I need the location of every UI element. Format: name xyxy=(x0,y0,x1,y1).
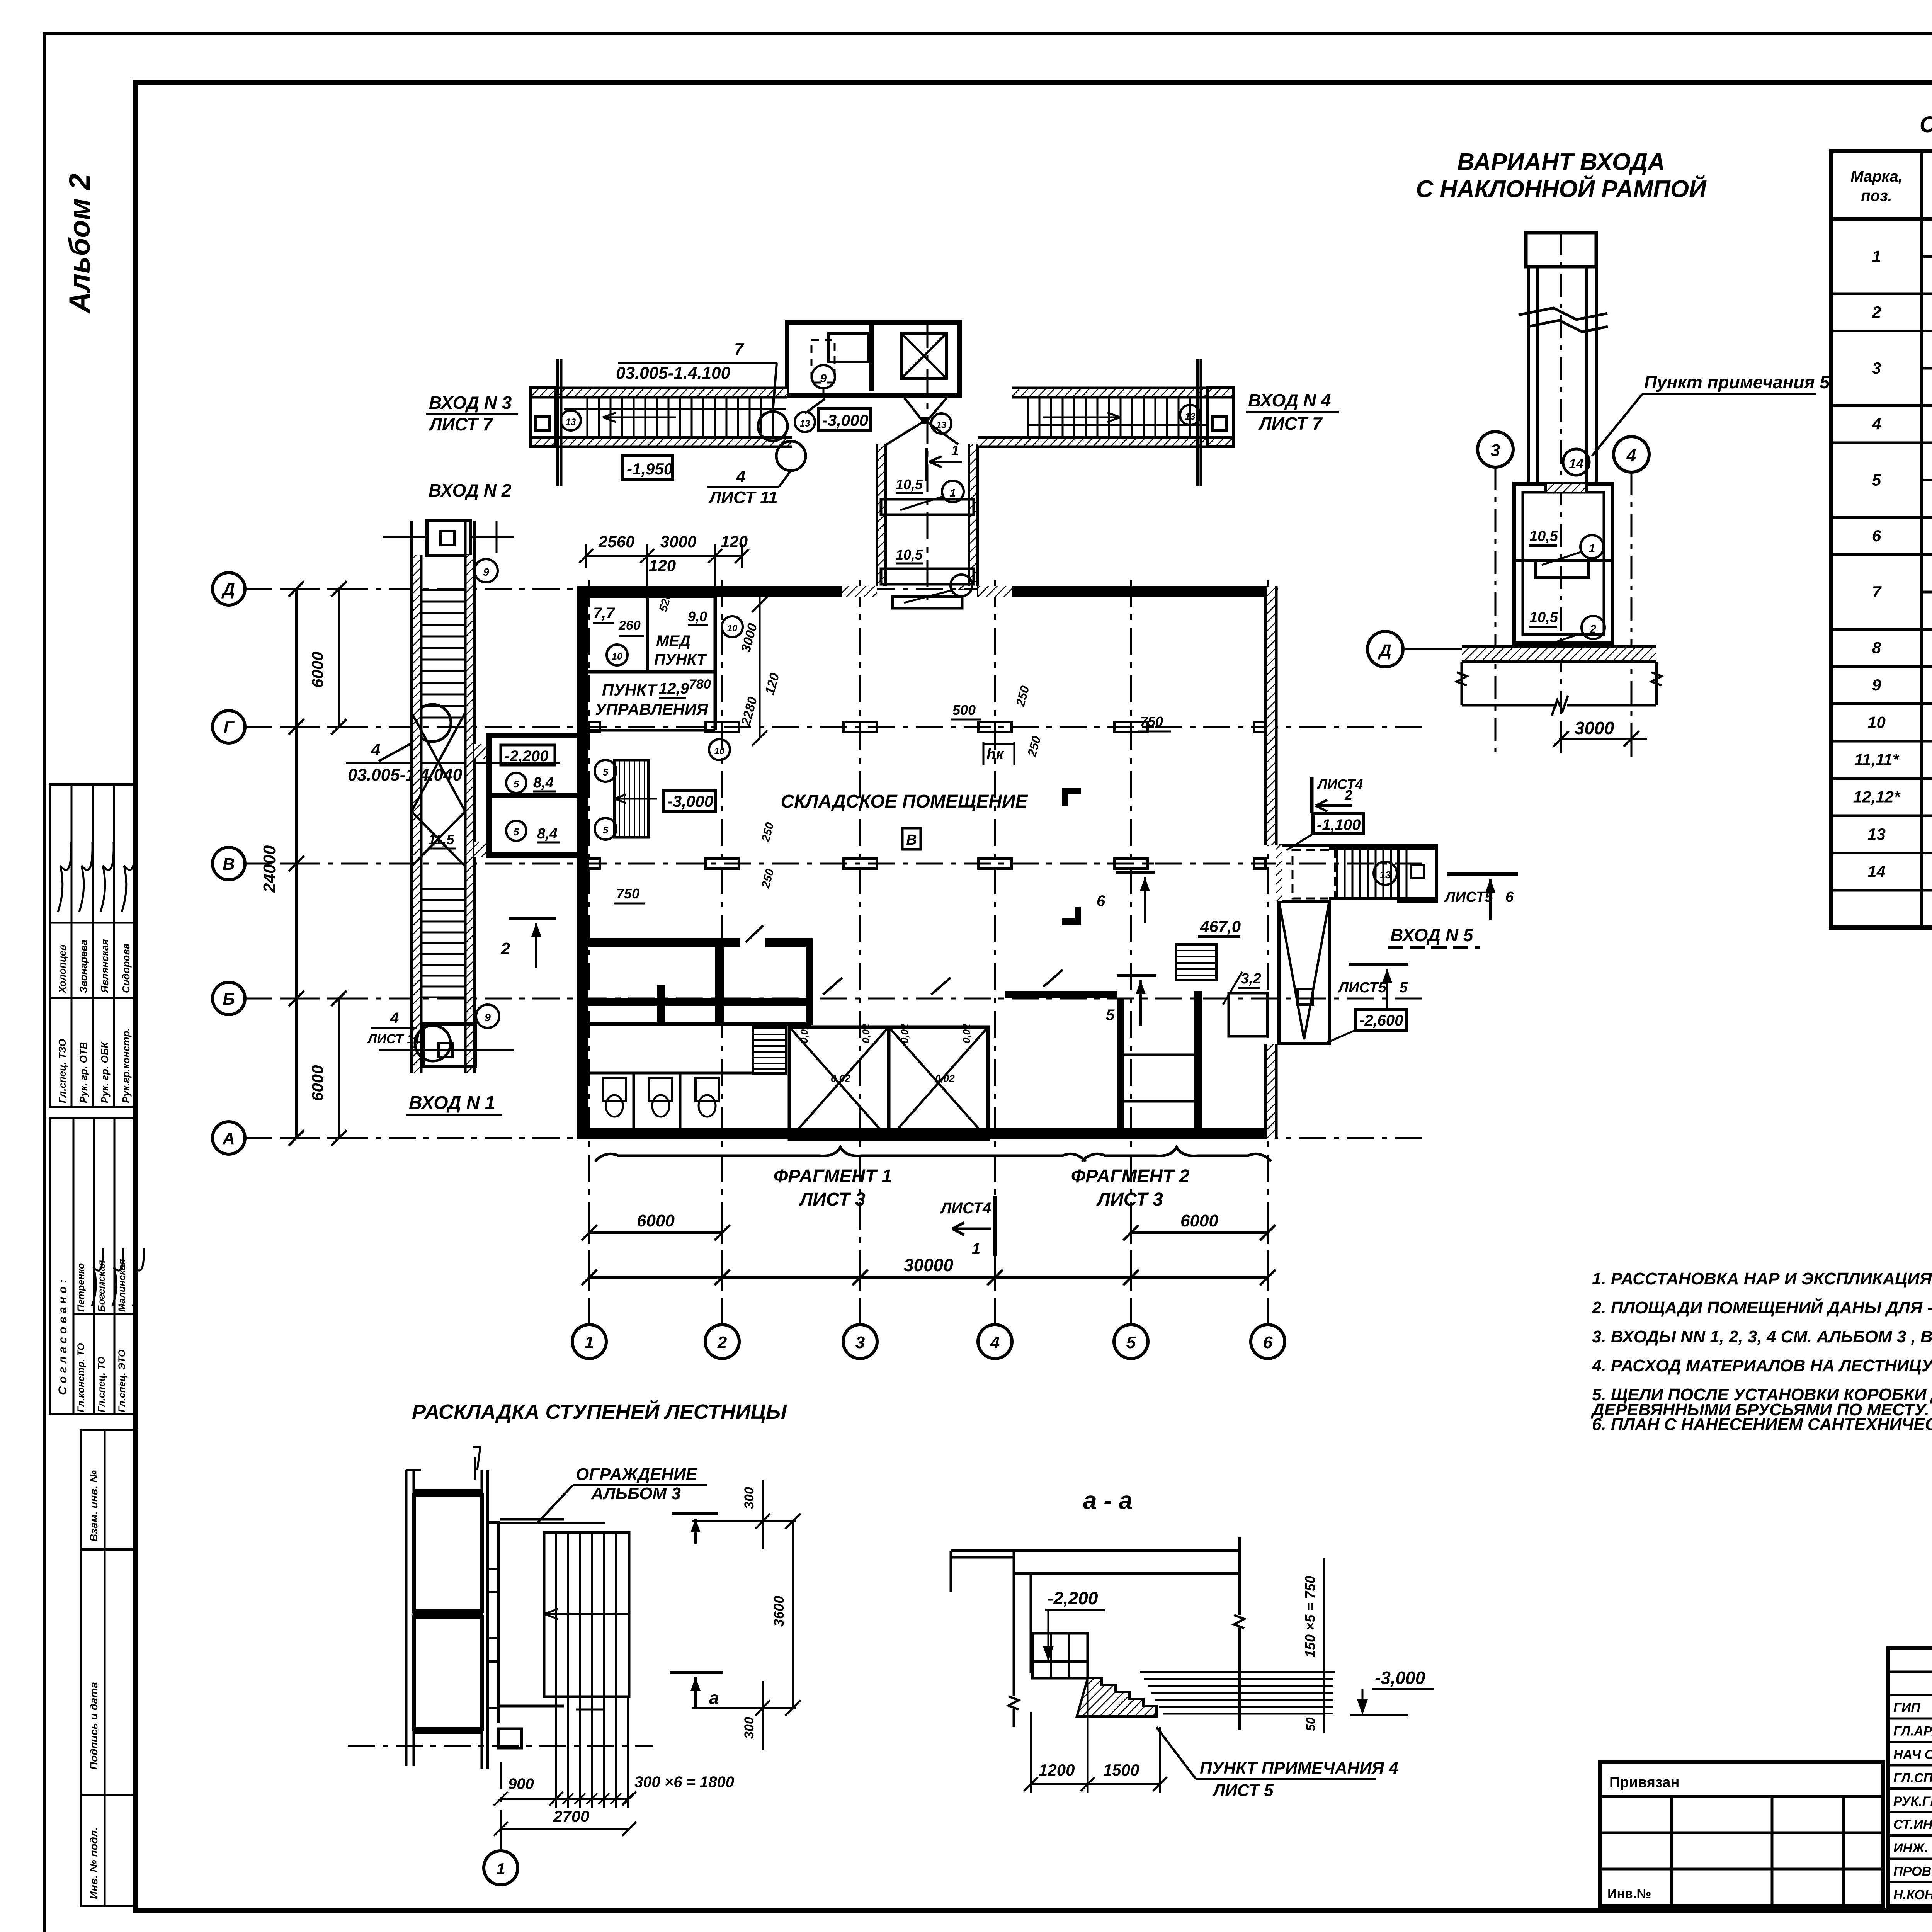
svg-text:В: В xyxy=(223,855,235,874)
svg-text:13: 13 xyxy=(800,418,810,429)
svg-text:0,02: 0,02 xyxy=(798,1024,810,1043)
svg-text:10,5: 10,5 xyxy=(896,547,923,563)
right ramp outer walls xyxy=(1012,388,1233,397)
svg-text:5: 5 xyxy=(1400,980,1408,996)
svg-text:2: 2 xyxy=(958,581,964,593)
svg-text:hк: hк xyxy=(986,746,1004,763)
svg-text:2: 2 xyxy=(500,939,510,958)
svg-text:300: 300 xyxy=(742,1487,757,1509)
svg-text:ЛИСТ 7: ЛИСТ 7 xyxy=(429,414,493,434)
svg-text:1. РАССТАНОВКА НАР И ЭКСПЛ: 1. РАССТАНОВКА НАР И ЭКСПЛИКАЦИЯ ПОМЕЩЕН… xyxy=(1592,1269,1932,1288)
dim right 300 top xyxy=(762,1480,764,1549)
svg-text:6000: 6000 xyxy=(637,1211,675,1230)
svg-text:СПЕЦИФИКАЦИЯ ЭЛЕМЕНТОВ З: СПЕЦИФИКАЦИЯ ЭЛЕМЕНТОВ ЗАПОЛНЕНИЯ ПРОЕМО… xyxy=(1920,112,1932,137)
svg-text:750: 750 xyxy=(1140,714,1163,730)
landing grid xyxy=(1032,1662,1088,1678)
svg-text:0,02: 0,02 xyxy=(860,1024,872,1043)
svg-text:Богемская: Богемская xyxy=(96,1260,107,1312)
circled 9 top xyxy=(812,365,835,388)
axis 2 line xyxy=(721,580,723,1325)
stair strip top box xyxy=(427,521,471,555)
svg-text:24000: 24000 xyxy=(260,845,279,893)
raskladka left wall xyxy=(405,1470,408,1766)
building left wall xyxy=(577,586,588,1139)
dim 2700 xyxy=(501,1828,629,1830)
svg-text:-1,950: -1,950 xyxy=(627,460,673,478)
svg-text:Д: Д xyxy=(1378,641,1391,660)
svg-text:Гл.спец. ТО: Гл.спец. ТО xyxy=(96,1356,107,1412)
svg-text:-3,000: -3,000 xyxy=(822,411,868,429)
bottom rooms top wall xyxy=(588,938,740,947)
corridor door 1 xyxy=(881,499,974,515)
ramp mid arrows right xyxy=(1043,417,1121,418)
svg-text:10: 10 xyxy=(612,651,622,662)
svg-text:СТ.ИНЖ.: СТ.ИНЖ. xyxy=(1893,1818,1932,1832)
axis Г circle xyxy=(213,711,245,743)
svg-text:Являнская: Являнская xyxy=(99,939,111,993)
building top wall xyxy=(577,586,877,597)
svg-text:5: 5 xyxy=(1106,1007,1115,1024)
svg-text:7: 7 xyxy=(1872,583,1882,601)
svg-text:-3,000: -3,000 xyxy=(1375,1668,1425,1688)
svg-text:10,5: 10,5 xyxy=(1529,609,1558,626)
junction floor diagonals xyxy=(905,398,922,420)
svg-text:2: 2 xyxy=(1590,623,1597,636)
svg-text:120: 120 xyxy=(721,532,748,551)
ramp mid rail right xyxy=(1028,424,1206,426)
bottom dims 6000 xyxy=(589,1231,722,1234)
vhod5 stair annex xyxy=(1279,844,1436,847)
stair treads upper xyxy=(421,589,465,591)
svg-text:РУК.ГР.: РУК.ГР. xyxy=(1893,1794,1932,1809)
circled 5 + 8,4 upper xyxy=(506,773,526,793)
fragment braces xyxy=(595,1147,1086,1161)
svg-text:ЛИСТ 11: ЛИСТ 11 xyxy=(708,488,778,507)
svg-text:50: 50 xyxy=(1304,1717,1318,1731)
svg-text:4: 4 xyxy=(371,740,380,759)
circled 2 xyxy=(1582,616,1605,639)
dim 3000 section xyxy=(1559,738,1647,740)
svg-text:ВХОД N 4: ВХОД N 4 xyxy=(1248,390,1331,410)
annex connectors xyxy=(474,744,489,759)
-1,100 label xyxy=(1313,814,1363,834)
svg-text:10: 10 xyxy=(714,746,725,757)
title block small left table (Privyazan) xyxy=(1600,1762,1883,1906)
left dim 24000 xyxy=(295,589,298,1138)
svg-text:11,5: 11,5 xyxy=(428,832,454,847)
svg-text:5: 5 xyxy=(1126,1333,1136,1352)
svg-text:-2,200: -2,200 xyxy=(505,748,548,765)
axis line + circle 1 xyxy=(348,1745,653,1747)
svg-text:9: 9 xyxy=(483,566,489,578)
svg-text:9: 9 xyxy=(820,372,827,385)
svg-text:1: 1 xyxy=(496,1860,505,1878)
lift shaft with X xyxy=(901,333,946,378)
vestibule top hatch xyxy=(1546,484,1587,492)
top rail mark xyxy=(383,536,427,538)
stair treads lower xyxy=(421,888,465,890)
svg-text:поз.: поз. xyxy=(1861,187,1892,204)
svg-text:1: 1 xyxy=(585,1333,594,1352)
vestibule middle landing xyxy=(1536,560,1589,577)
axis Д circle xyxy=(213,573,245,605)
-1,950 box xyxy=(622,456,673,479)
svg-text:8,4: 8,4 xyxy=(533,775,554,791)
bottom rail mark xyxy=(379,1049,514,1051)
room 7,7 xyxy=(587,597,647,672)
svg-text:ЛИСТ5: ЛИСТ5 xyxy=(1444,889,1493,905)
svg-text:5: 5 xyxy=(514,826,519,838)
svg-text:Пункт примечания 5: Пункт примечания 5 xyxy=(1644,372,1830,392)
bottom dim 30000 xyxy=(589,1276,1268,1279)
bottom dims 1200/1500 xyxy=(1030,1712,1032,1793)
axis 4 circle xyxy=(978,1325,1012,1359)
right ramp end box xyxy=(1208,388,1233,447)
svg-text:9,0: 9,0 xyxy=(688,609,707,624)
right stairwell funnel xyxy=(1279,901,1329,1044)
svg-text:2: 2 xyxy=(1872,303,1881,321)
callout circle bottom xyxy=(415,1026,451,1061)
svg-text:9: 9 xyxy=(485,1012,491,1024)
svg-text:10,5: 10,5 xyxy=(896,476,923,492)
axis 3 line xyxy=(859,580,861,1325)
svg-text:467,0: 467,0 xyxy=(1200,917,1241,935)
svg-text:ЛИСТ 3: ЛИСТ 3 xyxy=(1096,1189,1163,1210)
section shaft cap xyxy=(1526,233,1596,267)
svg-text:11,11*: 11,11* xyxy=(1854,750,1900,769)
axis В circle xyxy=(213,847,245,880)
svg-text:МЕД: МЕД xyxy=(656,633,690,650)
callout circles junction xyxy=(758,412,787,441)
svg-text:13: 13 xyxy=(1867,825,1886,843)
left ramp treads xyxy=(587,397,588,437)
svg-text:2700: 2700 xyxy=(553,1807,589,1825)
annex rooms box xyxy=(489,735,584,855)
svg-text:Гл.констр. ТО: Гл.констр. ТО xyxy=(76,1343,87,1412)
svg-text:13: 13 xyxy=(1185,412,1196,422)
svg-text:ВХОД N 3: ВХОД N 3 xyxy=(429,393,512,413)
svg-text:ЛИСТ 11: ЛИСТ 11 xyxy=(367,1032,421,1046)
B box xyxy=(902,828,921,849)
svg-text:300 ×6 = 1800: 300 ×6 = 1800 xyxy=(634,1774,734,1791)
circled 13 b,c,d xyxy=(795,412,815,432)
top rooms block xyxy=(787,322,959,395)
svg-text:Петренко: Петренко xyxy=(76,1263,87,1312)
section mark a top xyxy=(670,1671,723,1674)
punkt upravleniya room xyxy=(587,670,715,674)
stair plan rect xyxy=(544,1532,629,1697)
svg-text:6: 6 xyxy=(1263,1333,1273,1352)
svg-text:ИНЖ.: ИНЖ. xyxy=(1893,1841,1928,1855)
svg-text:1: 1 xyxy=(1589,542,1595,555)
axis Б circle xyxy=(213,982,245,1015)
svg-text:Марка,: Марка, xyxy=(1850,168,1903,185)
axis circle 3 xyxy=(1478,432,1513,467)
axis Б line xyxy=(245,998,1430,1000)
dashed equipment rect xyxy=(828,333,868,362)
svg-text:-2,200: -2,200 xyxy=(1048,1588,1098,1608)
stair strip walls xyxy=(412,555,421,1073)
svg-text:С о г л а с о в а н о :: С о г л а с о в а н о : xyxy=(56,1279,69,1395)
mid landing diagonals xyxy=(412,713,465,811)
circled 1 xyxy=(1580,535,1604,558)
svg-text:С НАКЛОННОЙ РАМПОЙ: С НАКЛОННОЙ РАМПОЙ xyxy=(1416,175,1707,202)
svg-text:ОГРАЖДЕНИЕ: ОГРАЖДЕНИЕ xyxy=(576,1465,698,1484)
svg-text:РАСКЛАДКА СТУПЕНЕЙ ЛЕСТН: РАСКЛАДКА СТУПЕНЕЙ ЛЕСТНИЦЫ xyxy=(412,1400,787,1423)
circled 10 c xyxy=(709,739,730,760)
left ramp outer walls xyxy=(530,388,787,397)
axis 1 circle xyxy=(572,1325,606,1359)
svg-text:ЛИСТ4: ЛИСТ4 xyxy=(940,1200,991,1217)
svg-text:Д: Д xyxy=(221,580,235,599)
door swings xyxy=(823,978,842,995)
svg-text:ЛИСТ4: ЛИСТ4 xyxy=(1316,776,1363,792)
ramp mid arrows left xyxy=(603,417,676,418)
svg-text:ПУНКТ ПРИМЕЧАНИЯ 4: ПУНКТ ПРИМЕЧАНИЯ 4 xyxy=(1200,1759,1398,1777)
svg-text:120: 120 xyxy=(649,556,676,575)
toilets row bottom-left xyxy=(588,1072,753,1075)
svg-text:6000: 6000 xyxy=(1180,1211,1218,1230)
svg-text:12,12*: 12,12* xyxy=(1853,788,1901,806)
svg-text:0,02: 0,02 xyxy=(899,1024,910,1043)
door arcs top wall xyxy=(746,925,763,942)
svg-text:150 ×5 = 750: 150 ×5 = 750 xyxy=(1302,1576,1318,1658)
svg-text:12,9: 12,9 xyxy=(659,680,689,697)
svg-text:3000: 3000 xyxy=(1575,718,1614,738)
svg-text:Б: Б xyxy=(223,990,235,1009)
steps and concrete mass xyxy=(1077,1678,1156,1716)
svg-text:3. ВХОДЫ NN 1, 2, 3, 4 СМ.: 3. ВХОДЫ NN 1, 2, 3, 4 СМ. АЛЬБОМ 3 , ВХ… xyxy=(1592,1327,1932,1346)
vhod5 end box xyxy=(1399,845,1436,901)
svg-text:6: 6 xyxy=(1505,889,1514,905)
svg-text:2: 2 xyxy=(1344,787,1352,803)
stair right of annex xyxy=(614,760,648,837)
columns xyxy=(706,722,739,732)
svg-text:6000: 6000 xyxy=(308,1065,327,1101)
svg-text:900: 900 xyxy=(508,1776,534,1793)
svg-text:4: 4 xyxy=(736,467,745,486)
svg-text:0,02: 0,02 xyxy=(935,1073,955,1084)
svg-text:Привязан: Привязан xyxy=(1609,1774,1679,1791)
svg-text:0,02: 0,02 xyxy=(961,1024,972,1043)
svg-text:4. РАСХОД МАТЕРИАЛОВ НА ЛЕСТ: 4. РАСХОД МАТЕРИАЛОВ НА ЛЕСТНИЦУ ВНЕСЕН … xyxy=(1592,1356,1932,1375)
svg-text:ЛИСТ5: ЛИСТ5 xyxy=(1337,980,1387,996)
svg-text:500: 500 xyxy=(952,702,976,718)
svg-text:300: 300 xyxy=(742,1717,757,1739)
list5-6 marker xyxy=(1447,872,1518,876)
svg-text:ПРОВЕР.: ПРОВЕР. xyxy=(1893,1864,1932,1879)
section arrow 2 xyxy=(509,917,556,920)
dim 3600 xyxy=(792,1521,794,1708)
svg-text:1: 1 xyxy=(972,1240,980,1257)
svg-text:Сидорова: Сидорова xyxy=(120,944,132,993)
svg-text:ГЛ.АРХ.: ГЛ.АРХ. xyxy=(1893,1724,1932,1739)
svg-text:10: 10 xyxy=(1867,713,1886,731)
svg-text:ФРАГМЕНТ 1: ФРАГМЕНТ 1 xyxy=(774,1166,892,1187)
svg-text:750: 750 xyxy=(616,886,639,901)
raskladka horizontals xyxy=(414,1489,482,1495)
axis 5 line xyxy=(1130,580,1132,1325)
svg-text:6: 6 xyxy=(1097,893,1105,910)
svg-text:260: 260 xyxy=(618,618,641,633)
axis circle D section xyxy=(1367,631,1403,667)
section shaft walls xyxy=(1527,267,1530,484)
svg-text:14: 14 xyxy=(1569,457,1583,471)
left ramp wall mark xyxy=(556,359,559,486)
svg-text:Малинская: Малинская xyxy=(117,1259,128,1312)
svg-text:Инв.№: Инв.№ xyxy=(1607,1886,1651,1901)
section vestibule walls xyxy=(1514,484,1612,643)
svg-text:780: 780 xyxy=(689,677,711,692)
svg-text:УПРАВЛЕНИЯ: УПРАВЛЕНИЯ xyxy=(595,700,709,718)
circled 9 lower xyxy=(476,1005,499,1028)
bottom entry hatch strip xyxy=(842,586,877,597)
slab sides box with breaks xyxy=(1461,662,1463,705)
ramp lines xyxy=(1140,1671,1325,1673)
right rooms partitions xyxy=(1117,998,1124,1139)
svg-text:6000: 6000 xyxy=(308,652,327,688)
svg-text:1: 1 xyxy=(951,442,959,458)
svg-text:4: 4 xyxy=(990,1333,1000,1352)
svg-text:НАЧ ОТД.: НАЧ ОТД. xyxy=(1893,1747,1932,1762)
dim right 300 bottom xyxy=(762,1681,764,1750)
svg-text:ПУНКТ: ПУНКТ xyxy=(602,681,658,699)
svg-text:Рук. гр. ОБК: Рук. гр. ОБК xyxy=(99,1041,111,1103)
axis 3 circle xyxy=(843,1325,877,1359)
svg-text:2. ПЛОЩАДИ ПОМЕЩЕНИЙ ДАН: 2. ПЛОЩАДИ ПОМЕЩЕНИЙ ДАНЫ ДЛЯ -А- II - 1… xyxy=(1592,1298,1932,1317)
svg-text:2560: 2560 xyxy=(598,532,634,551)
circled 10 a,b xyxy=(607,645,628,665)
-3,000 box plan xyxy=(663,791,715,811)
svg-text:10: 10 xyxy=(727,623,738,634)
vhod5 treads xyxy=(1336,849,1338,898)
section arrow 6 mid xyxy=(1116,871,1155,874)
svg-text:Рук.гр.констр.: Рук.гр.констр. xyxy=(120,1028,132,1103)
building bottom wall xyxy=(577,1128,1276,1139)
central stairwell X boxes xyxy=(789,1027,889,1139)
circled 13 vhod5 xyxy=(1374,862,1397,885)
svg-text:1: 1 xyxy=(950,487,956,499)
dims above building 2560/3000/120 xyxy=(586,555,742,557)
svg-text:13: 13 xyxy=(936,420,947,430)
list4-2 marker right xyxy=(1310,777,1314,813)
left dim 6000s xyxy=(338,589,340,727)
svg-text:4: 4 xyxy=(1626,446,1636,465)
axis А line xyxy=(245,1137,1430,1139)
svg-text:3000: 3000 xyxy=(660,532,696,551)
section shaft break xyxy=(1519,308,1607,320)
axis В line xyxy=(245,863,1430,865)
axis 6 circle xyxy=(1251,1325,1285,1359)
circled 14 xyxy=(1563,449,1589,475)
axis circle 4 xyxy=(1614,437,1649,472)
axis 1 line xyxy=(588,580,590,1325)
svg-text:3,2: 3,2 xyxy=(1241,971,1261,987)
svg-text:Инв. № подл.: Инв. № подл. xyxy=(88,1827,100,1899)
svg-text:5: 5 xyxy=(514,778,519,790)
svg-text:0,02: 0,02 xyxy=(831,1073,850,1084)
svg-text:Взам. инв. №: Взам. инв. № xyxy=(88,1470,100,1542)
corner marks xyxy=(1062,788,1081,806)
svg-text:3: 3 xyxy=(855,1333,865,1352)
med punkt room xyxy=(647,597,715,672)
svg-text:ВАРИАНТ ВХОДА: ВАРИАНТ ВХОДА xyxy=(1457,149,1665,175)
svg-text:7,7: 7,7 xyxy=(593,605,615,622)
svg-text:Н.КОНТР.: Н.КОНТР. xyxy=(1893,1888,1932,1902)
svg-text:a: a xyxy=(709,1688,719,1708)
svg-text:Гл.спец. ЭТО: Гл.спец. ЭТО xyxy=(117,1349,128,1412)
svg-text:ВХОД N 2: ВХОД N 2 xyxy=(429,480,512,500)
circled 9 upper xyxy=(474,559,498,582)
corridor door 2 xyxy=(881,569,974,584)
svg-text:1500: 1500 xyxy=(1103,1761,1139,1779)
axis Г line xyxy=(245,726,1430,728)
right dim 150x5=750 xyxy=(1323,1558,1325,1733)
svg-text:Подпись и дата: Подпись и дата xyxy=(88,1682,100,1770)
svg-text:а - а: а - а xyxy=(1083,1486,1133,1514)
section ground slab xyxy=(1462,646,1656,662)
plan marker 1 arrow in corridor xyxy=(925,448,928,481)
svg-text:ВХОД N 1: ВХОД N 1 xyxy=(409,1093,495,1113)
ceiling slab xyxy=(951,1549,1240,1552)
svg-text:-2,600: -2,600 xyxy=(1359,1012,1403,1029)
section mark a top bar xyxy=(672,1512,718,1515)
svg-text:13: 13 xyxy=(1380,869,1391,881)
svg-text:5: 5 xyxy=(1872,471,1881,489)
stair treads left of X box xyxy=(753,1028,786,1029)
svg-text:4: 4 xyxy=(390,1010,399,1027)
svg-text:-3,000: -3,000 xyxy=(667,792,713,810)
spec table grid xyxy=(1831,151,1932,927)
left margin inventory boxes xyxy=(81,1430,137,1549)
svg-text:2: 2 xyxy=(717,1333,727,1352)
axis А circle xyxy=(213,1122,245,1154)
svg-text:ФРАГМЕНТ 2: ФРАГМЕНТ 2 xyxy=(1071,1166,1190,1187)
svg-text:ПУНКТ: ПУНКТ xyxy=(654,651,707,668)
svg-text:ЛИСТ 5: ЛИСТ 5 xyxy=(1212,1781,1274,1800)
svg-text:Гл.спец. ТЗО: Гл.спец. ТЗО xyxy=(56,1039,68,1103)
svg-text:5: 5 xyxy=(603,824,609,836)
svg-text:3: 3 xyxy=(1491,441,1500,460)
svg-text:Г: Г xyxy=(223,718,235,737)
raskladka room boxes xyxy=(414,1495,482,1611)
partition walls bottom-left block xyxy=(806,938,813,1025)
rails xyxy=(500,1518,564,1521)
building right wall xyxy=(1265,586,1276,845)
-3,000 box top xyxy=(818,409,870,430)
svg-text:5: 5 xyxy=(603,766,609,778)
svg-text:4: 4 xyxy=(1872,415,1881,433)
svg-text:Альбом 2: Альбом 2 xyxy=(63,174,96,314)
ramp mid rail left xyxy=(564,408,786,410)
axis 6 line xyxy=(1267,580,1269,1325)
svg-text:ГЛ.СПЕЦ.: ГЛ.СПЕЦ. xyxy=(1893,1771,1932,1786)
left margin soglasovano table xyxy=(50,1118,135,1414)
svg-text:9: 9 xyxy=(1872,676,1881,694)
svg-text:30000: 30000 xyxy=(904,1255,953,1275)
list4 marker bottom xyxy=(993,1196,997,1256)
section arrow 5 mid xyxy=(1117,974,1156,977)
raskladka top ticks xyxy=(474,1457,476,1480)
svg-text:ЛИСТ 3: ЛИСТ 3 xyxy=(799,1189,866,1210)
svg-text:8,4: 8,4 xyxy=(537,826,558,842)
svg-text:8: 8 xyxy=(1872,639,1881,657)
svg-text:1: 1 xyxy=(1872,247,1881,265)
svg-text:ГИП: ГИП xyxy=(1893,1701,1921,1715)
title block signature table xyxy=(1888,1648,1932,1906)
right vertical with break xyxy=(1238,1537,1241,1615)
svg-text:АЛЬБОМ 3: АЛЬБОМ 3 xyxy=(591,1484,681,1503)
